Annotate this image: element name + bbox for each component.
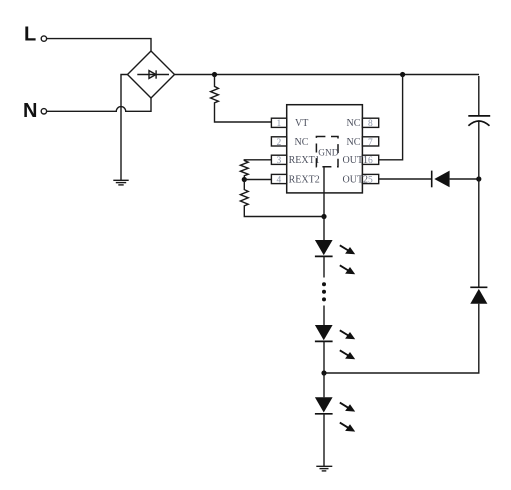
node ellipsis dot 1 [322,282,326,286]
wire N to bridge bottom with hop over ground wire [47,98,151,111]
resistor R3 (REXT2) [240,180,324,217]
resistor R1 [211,75,272,123]
svg-text:1: 1 [277,119,282,129]
wire GND to node below IC [323,167,325,217]
wire pin4 to node [244,179,271,181]
svg-text:OUT2: OUT2 [343,174,369,185]
svg-text:7: 7 [368,138,373,148]
svg-text:4: 4 [277,175,282,185]
svg-text:NC: NC [347,137,361,148]
wire pin3 to resistor R2 [244,160,271,161]
svg-text:GND: GND [318,149,338,159]
node N terminal circle [41,109,46,114]
ground (below bridge) [113,180,128,185]
pin 5 box [362,174,378,183]
node junction R2 R3 pin4 [242,177,247,182]
svg-text:2: 2 [277,138,282,148]
pin 1 box [271,118,286,127]
ground (bottom) [316,466,332,471]
svg-text:8: 8 [368,119,373,129]
capacitor C1 [468,76,490,179]
wire right rail bottom [324,304,479,373]
LED2 arrow a [340,330,355,339]
pin 4 box [271,174,286,183]
pin 8 box [362,118,378,127]
wire L to bridge top [47,39,151,51]
svg-text:6: 6 [368,156,373,166]
resistor R2 (REXT1) [240,161,248,180]
wire top rail [175,74,480,76]
wire right rail to diode D2 [478,179,480,287]
GND dashed box [316,137,338,167]
svg-text:NC: NC [295,137,309,148]
node junction top rail right [400,72,405,77]
pin 7 box [362,137,378,146]
wire node to LED1 [323,217,325,241]
svg-text:N: N [23,100,37,122]
LED LED2 [315,325,333,341]
LED3 arrow b [340,423,355,432]
bridge rectifier BR1 [128,51,175,98]
node junction below IC [321,214,326,219]
svg-text:OUT1: OUT1 [343,155,369,166]
LED1 arrow b [340,265,355,274]
node junction LED string to right rail [321,370,326,375]
node ellipsis dot 2 [322,290,326,294]
LED1 arrow a [340,245,355,254]
node junction top rail left [212,72,217,77]
pin 2 box [271,137,286,146]
node junction right rail at D1 [476,176,481,181]
wire ellipsis to LED2 [323,306,325,326]
diode D2 (right rail, pointing up) [470,287,487,303]
diode D1 (OUT2 line, pointing left) [432,171,479,188]
svg-text:5: 5 [368,175,373,185]
op-amp U1 IC body [287,105,363,193]
svg-text:VT: VT [295,118,308,129]
LED LED1 [315,240,333,256]
pin 6 box [362,155,378,164]
svg-text:REXT1: REXT1 [289,155,320,166]
wire node to LED3 [323,373,325,397]
svg-text:NC: NC [347,118,361,129]
wire LED1 to ellipsis [323,256,325,277]
svg-text:3: 3 [277,156,282,166]
pin 3 box [271,155,286,164]
node ellipsis dot 3 [322,297,326,301]
node L terminal circle [41,36,46,41]
svg-text:REXT2: REXT2 [289,174,320,185]
wire bridge left corner to ground [121,75,128,181]
wire pin5 to diode D1 [379,178,432,180]
wire pin6 to top rail [379,75,403,160]
wire LED3 to ground [323,414,325,467]
LED2 arrow b [340,350,355,359]
wire LED2 to node [323,341,325,373]
LED3 arrow a [340,403,355,412]
LED LED3 [315,397,333,414]
svg-text:L: L [24,24,36,46]
